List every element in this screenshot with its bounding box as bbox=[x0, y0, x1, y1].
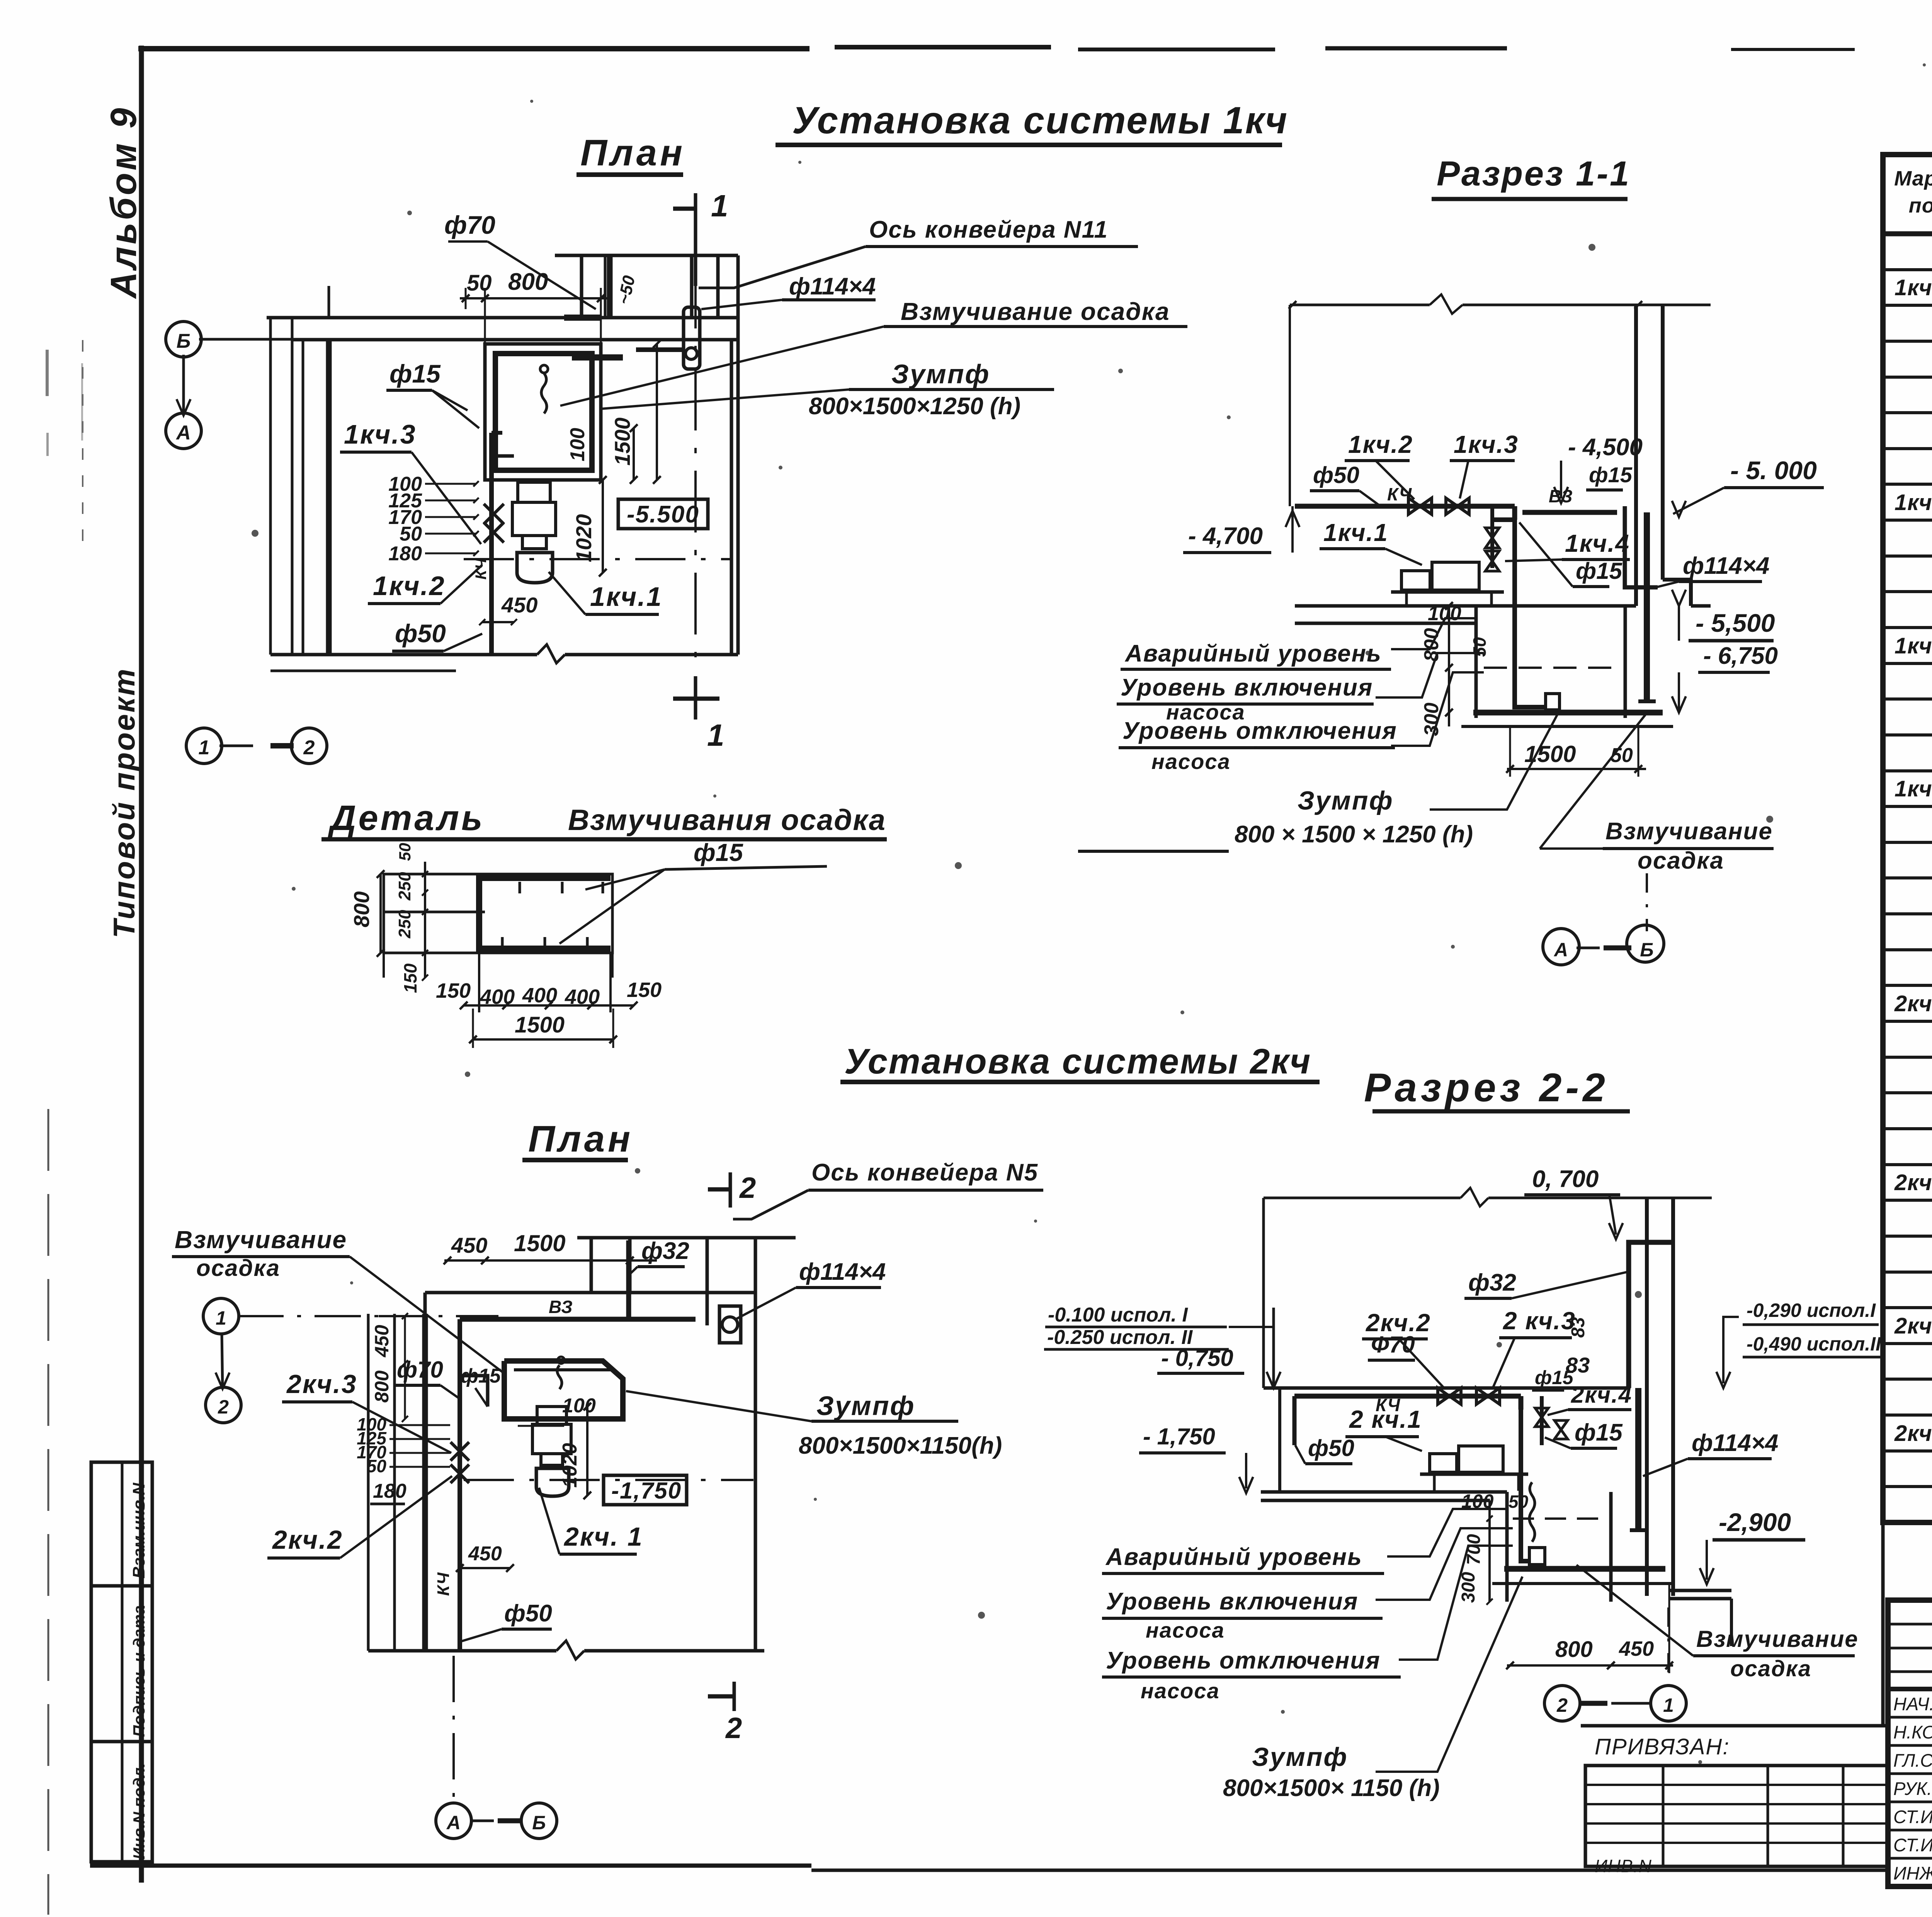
razrez2 right lower wall slab bbox=[1668, 1589, 1731, 1592]
plan2 axis circle 1 bbox=[203, 1298, 239, 1334]
svg-text:400: 400 bbox=[565, 985, 600, 1009]
plan2 pump 2KCh.1 unit bbox=[537, 1407, 566, 1424]
razrez1 axis circles A B bbox=[1543, 929, 1579, 965]
svg-text:ф70: ф70 bbox=[397, 1357, 443, 1383]
plan2 pipe elbow f15 into sump bbox=[460, 1376, 488, 1407]
detail dim line 1500 bbox=[473, 1038, 613, 1041]
razrez1 riser pipe down to sump bbox=[1512, 506, 1517, 520]
razrez2 pipe left elbow down bbox=[1293, 1396, 1297, 1445]
svg-text:Альбом 9: Альбом 9 bbox=[103, 106, 144, 299]
scan page left edge artifact bbox=[48, 1109, 49, 1915]
left stamp column table bbox=[91, 1462, 152, 1862]
detail bottom extension rect bbox=[383, 953, 385, 978]
plan2 section mark 2 top bbox=[729, 1172, 732, 1208]
svg-text:ГЛ.СПЕЦ.: ГЛ.СПЕЦ. bbox=[1893, 1750, 1932, 1771]
svg-text:Взмучивание: Взмучивание bbox=[1605, 818, 1773, 845]
svg-text:осадка: осадка bbox=[196, 1255, 280, 1281]
svg-text:1500: 1500 bbox=[610, 417, 634, 466]
plan1 valve 1KCh.2 cross symbols bbox=[484, 504, 504, 524]
svg-text:-5.500: -5.500 bbox=[627, 501, 699, 528]
svg-text:ф15: ф15 bbox=[1535, 1367, 1574, 1388]
svg-text:Б: Б bbox=[1640, 939, 1653, 961]
svg-text:ф114×4: ф114×4 bbox=[789, 273, 876, 300]
razrez1 floor slab double line bbox=[1295, 604, 1636, 608]
plan2 level box -1,750 bbox=[604, 1475, 687, 1505]
svg-text:800: 800 bbox=[1420, 628, 1443, 662]
plan1 pump 1KCh.1 unit bbox=[518, 482, 550, 502]
svg-text:- 0,750: - 0,750 bbox=[1161, 1345, 1233, 1371]
razrez1 f15 riser with valves bbox=[1490, 506, 1494, 568]
plan1 section line 1 bottom mark bbox=[694, 676, 697, 720]
svg-text:2кч.3: 2кч.3 bbox=[286, 1369, 357, 1399]
razrez2 dim 700 300 rotated bbox=[1488, 1500, 1491, 1602]
svg-text:Взмучивание: Взмучивание bbox=[175, 1226, 347, 1254]
svg-text:ПРИВЯЗАН:: ПРИВЯЗАН: bbox=[1595, 1734, 1730, 1759]
svg-text:800: 800 bbox=[508, 269, 548, 295]
svg-text:800: 800 bbox=[349, 891, 374, 927]
svg-text:ф32: ф32 bbox=[1468, 1269, 1516, 1296]
plan2 pipe VZ horizontal bbox=[460, 1317, 696, 1322]
svg-text:800×1500×1150(h): 800×1500×1150(h) bbox=[799, 1432, 1002, 1459]
svg-text:2: 2 bbox=[1556, 1694, 1568, 1716]
razrez1 level leader lines bbox=[1391, 618, 1476, 649]
detail dim line segments 150 400 400 400 150 bbox=[464, 1004, 634, 1007]
svg-text:1кч.2: 1кч.2 bbox=[1348, 430, 1413, 458]
svg-text:ВЗ: ВЗ bbox=[549, 1297, 573, 1317]
razrez2 sump walls bbox=[1505, 1492, 1509, 1602]
svg-text:ф32: ф32 bbox=[641, 1238, 689, 1264]
plan1 pump axis dash-dot line bbox=[464, 558, 730, 560]
spec table header row line bbox=[1883, 231, 1932, 236]
plan2 pump axis dash-dot line bbox=[464, 1479, 753, 1481]
svg-text:450: 450 bbox=[501, 593, 537, 617]
svg-text:насоса: насоса bbox=[1141, 1679, 1220, 1703]
sheet frame bottom border bbox=[90, 1864, 811, 1868]
svg-text:180: 180 bbox=[373, 1480, 406, 1502]
svg-text:ф114×4: ф114×4 bbox=[799, 1259, 886, 1285]
svg-text:- 6,750: - 6,750 bbox=[1703, 643, 1778, 669]
svg-text:100: 100 bbox=[566, 428, 589, 461]
razrez2 top line with break bbox=[1264, 1197, 1461, 1199]
svg-text:РУК.ГР.: РУК.ГР. bbox=[1893, 1778, 1932, 1799]
svg-text:2кч. 4: 2кч. 4 bbox=[1894, 1421, 1932, 1446]
razrez1 top dimension line with break bbox=[1290, 304, 1430, 306]
svg-text:ф50: ф50 bbox=[395, 619, 446, 648]
plan1 section axis dash-dot through room bbox=[694, 267, 697, 674]
svg-text:50: 50 bbox=[1469, 637, 1490, 657]
scan noise specks bbox=[530, 100, 533, 103]
plan1 axis A-B connector bbox=[182, 355, 185, 415]
svg-text:250: 250 bbox=[395, 872, 414, 901]
svg-text:-0.100 испол. I: -0.100 испол. I bbox=[1048, 1304, 1188, 1326]
svg-text:Аварийный уровень: Аварийный уровень bbox=[1105, 1544, 1362, 1570]
razrez2 axis circles 2 1 bbox=[1544, 1686, 1580, 1721]
svg-text:Инв.N подл.: Инв.N подл. bbox=[130, 1763, 148, 1859]
razrez1 valve 1KCh.2 bbox=[1408, 498, 1432, 514]
svg-text:- 5,500: - 5,500 bbox=[1696, 609, 1775, 637]
detail mid divider line bbox=[384, 911, 485, 913]
svg-text:- 1,750: - 1,750 bbox=[1143, 1424, 1215, 1449]
svg-text:400: 400 bbox=[480, 985, 515, 1009]
svg-text:ф70: ф70 bbox=[444, 211, 495, 239]
svg-text:А: А bbox=[175, 422, 191, 444]
razrez2 pump 2KCh.1 bbox=[1430, 1454, 1457, 1472]
plan1 suction pipe vertical bbox=[489, 433, 494, 656]
svg-text:250: 250 bbox=[395, 910, 414, 939]
razrez2 strainer bbox=[1529, 1548, 1545, 1565]
svg-text:ф15: ф15 bbox=[694, 839, 743, 866]
razrez2 upper floor line bbox=[1264, 1386, 1629, 1390]
svg-text:400: 400 bbox=[522, 984, 557, 1007]
plan1 left wall double line bbox=[269, 318, 272, 655]
svg-text:1кч.2: 1кч.2 bbox=[373, 571, 446, 601]
title block signature rows bbox=[1888, 1716, 1932, 1719]
svg-text:2: 2 bbox=[303, 737, 315, 759]
svg-text:насоса: насоса bbox=[1146, 1618, 1225, 1642]
svg-text:Установка системы 2кч: Установка системы 2кч bbox=[844, 1042, 1311, 1081]
svg-text:150: 150 bbox=[436, 979, 471, 1002]
razrez1 strainer at pipe end bbox=[1546, 694, 1560, 710]
svg-text:Ось конвейера N11: Ось конвейера N11 bbox=[869, 216, 1108, 243]
svg-text:1500: 1500 bbox=[514, 1230, 565, 1256]
detail channel thick walls bbox=[479, 878, 611, 953]
svg-text:Взмучивание осадка: Взмучивание осадка bbox=[901, 298, 1170, 325]
svg-text:-0,290 испол.I: -0,290 испол.I bbox=[1747, 1300, 1876, 1321]
plan2 conveyor walls top bbox=[577, 1236, 796, 1240]
svg-text:Разрез 1-1: Разрез 1-1 bbox=[1437, 155, 1631, 193]
svg-text:1020: 1020 bbox=[571, 514, 596, 562]
svg-text:50: 50 bbox=[400, 523, 422, 545]
plan2 dim 450 bottom bbox=[460, 1567, 510, 1569]
razrez2 level leaders left bbox=[1387, 1509, 1507, 1556]
svg-text:Зумпф: Зумпф bbox=[891, 359, 990, 389]
svg-text:ИНЖ.: ИНЖ. bbox=[1893, 1863, 1932, 1883]
razrez1 sump water level dash bbox=[1484, 667, 1619, 669]
svg-text:1кч.3: 1кч.3 bbox=[1895, 633, 1932, 658]
svg-text:450: 450 bbox=[1619, 1637, 1654, 1660]
svg-text:План: План bbox=[580, 132, 685, 173]
razrez2 sump bottom slab bbox=[1504, 1566, 1665, 1572]
plan2 horizontal centerline dash-dot bbox=[237, 1315, 379, 1317]
plan1 pipe elbow into sump bbox=[492, 431, 502, 435]
svg-text:План: План bbox=[528, 1118, 633, 1160]
plan1 dim line 50 800 top bbox=[460, 297, 609, 299]
svg-text:2: 2 bbox=[218, 1396, 229, 1418]
svg-text:300: 300 bbox=[1458, 1572, 1479, 1603]
svg-text:800: 800 bbox=[371, 1370, 393, 1403]
svg-text:1: 1 bbox=[216, 1307, 226, 1329]
svg-text:1: 1 bbox=[707, 718, 724, 752]
detail left dim 800 bbox=[379, 874, 382, 953]
svg-text:Н.КОНТР.: Н.КОНТР. bbox=[1893, 1722, 1932, 1742]
svg-text:СТ.ИНЖ.: СТ.ИНЖ. bbox=[1893, 1806, 1932, 1827]
spec table row lines bbox=[1883, 268, 1932, 271]
razrez1 right wall columns bbox=[1634, 305, 1638, 606]
plan2 sump inner top line bbox=[514, 1368, 614, 1371]
plan1 bottom wall with break bbox=[270, 653, 537, 657]
plan2 centerline down to axis circles bbox=[452, 1656, 455, 1801]
svg-text:50: 50 bbox=[467, 270, 492, 296]
svg-text:ф15: ф15 bbox=[1575, 1419, 1623, 1446]
razrez2 f32 pipe vertical thick bbox=[1629, 1242, 1673, 1388]
plan1 pipe to pump horizontal bbox=[492, 454, 514, 458]
svg-text:Б: Б bbox=[177, 330, 191, 352]
plan2 valve crosses on pipe bbox=[451, 1442, 469, 1461]
plan2 axis connector 1-2 bbox=[222, 1332, 223, 1389]
plan2 axis circles A B bottom bbox=[436, 1803, 471, 1839]
plan2 bottom wall with break bbox=[368, 1649, 556, 1653]
svg-text:1: 1 bbox=[1663, 1694, 1674, 1716]
svg-text:2кч.4: 2кч.4 bbox=[1571, 1382, 1632, 1408]
svg-text:насоса: насоса bbox=[1151, 749, 1231, 774]
svg-text:Б: Б bbox=[532, 1812, 546, 1834]
svg-text:2кч. 2: 2кч. 2 bbox=[1894, 1170, 1932, 1195]
svg-text:Зумпф: Зумпф bbox=[816, 1391, 915, 1421]
razrez2 left wall step bbox=[1262, 1198, 1265, 1388]
svg-text:-0,490 испол.II: -0,490 испол.II bbox=[1747, 1333, 1881, 1355]
razrez1 floor slab right part bbox=[1691, 604, 1711, 608]
svg-text:ф15: ф15 bbox=[1576, 558, 1622, 584]
svg-text:поз.: поз. bbox=[1909, 194, 1932, 217]
svg-text:50: 50 bbox=[396, 843, 414, 861]
plan1 f70 pipe drop double line bbox=[604, 257, 607, 318]
svg-text:ф50: ф50 bbox=[504, 1600, 552, 1627]
razrez1 valve 1KCh.3 bbox=[1446, 498, 1469, 514]
svg-text:Взмучивания осадка: Взмучивания осадка bbox=[568, 804, 886, 837]
svg-text:осадка: осадка bbox=[1638, 847, 1724, 874]
svg-text:Зумпф: Зумпф bbox=[1298, 786, 1394, 815]
razrez2 f114x4 pipe vertical bbox=[1635, 1388, 1641, 1530]
razrez1 upper floor small ticks bbox=[1625, 304, 1711, 306]
plan2 section mark 2 bottom bbox=[733, 1682, 736, 1711]
plan2 float in sump bbox=[557, 1365, 562, 1389]
razrez1 pipe VZ horizontal bbox=[1522, 510, 1617, 515]
svg-text:КЧ: КЧ bbox=[473, 558, 490, 580]
svg-text:ф114×4: ф114×4 bbox=[1692, 1430, 1778, 1456]
plan1 sump outlet slot bbox=[572, 354, 623, 361]
razrez2 riser and valves 2KCh.4 bbox=[1519, 1396, 1524, 1410]
razrez2 floor slab double bbox=[1261, 1490, 1507, 1494]
detail outer thin rectangle bbox=[384, 874, 612, 953]
plan1 bottom outer wall line bbox=[270, 670, 456, 672]
svg-text:Деталь: Деталь bbox=[328, 798, 485, 838]
svg-text:50: 50 bbox=[367, 1456, 387, 1476]
svg-text:ф15: ф15 bbox=[1589, 463, 1633, 487]
svg-text:2: 2 bbox=[725, 1712, 742, 1745]
plan2 pipe drop from VZ bbox=[457, 1319, 462, 1376]
razrez2 valve 2KCh.3 bbox=[1476, 1388, 1500, 1404]
plan1 left wall column thick bbox=[326, 340, 332, 655]
detail left dim chain 50 250 250 150 bbox=[424, 862, 426, 978]
title block row line under TP cell bbox=[1888, 1687, 1932, 1691]
svg-text:1кч.3: 1кч.3 bbox=[344, 419, 417, 449]
svg-text:ф15: ф15 bbox=[389, 359, 441, 388]
plan2 dims 450 800 rotated left bbox=[404, 1316, 406, 1363]
plan1 axis circle A bbox=[166, 413, 201, 449]
svg-text:0, 700: 0, 700 bbox=[1532, 1166, 1599, 1192]
sheet frame top border bbox=[138, 46, 810, 51]
plan1 top wall double line bbox=[267, 316, 738, 320]
svg-text:800×1500× 1150 (h): 800×1500× 1150 (h) bbox=[1223, 1775, 1440, 1801]
scan smudge marks left edge bbox=[46, 350, 49, 396]
svg-text:А: А bbox=[1553, 939, 1568, 961]
svg-text:Уровень отключения: Уровень отключения bbox=[1106, 1647, 1381, 1674]
plan1 dim 1020 vertical bbox=[602, 480, 604, 573]
spec table left edge extension to privyazan bbox=[1881, 1522, 1885, 1726]
plan2 f32 pipe vertical bbox=[626, 1240, 631, 1319]
svg-text:НАЧ.ОТД: НАЧ.ОТД bbox=[1893, 1694, 1932, 1714]
plan2 right wall bbox=[754, 1238, 757, 1651]
svg-text:50: 50 bbox=[1509, 1492, 1529, 1512]
svg-text:Разрез 2-2: Разрез 2-2 bbox=[1364, 1065, 1609, 1110]
plan1 axis dash line vertical bbox=[328, 286, 330, 318]
plan2 flanged elbow on wall bbox=[719, 1306, 741, 1343]
svg-text:2: 2 bbox=[739, 1172, 756, 1204]
razrez1 vertical dim chain 800 50 300 bbox=[1448, 606, 1450, 726]
svg-text:1500: 1500 bbox=[515, 1012, 565, 1038]
plan1 right wall bbox=[730, 340, 733, 655]
razrez1 right wall ledge bbox=[1663, 580, 1691, 606]
razrez1 pipe KCh horizontal bbox=[1295, 504, 1515, 509]
plan2 sump quadrilateral bbox=[504, 1361, 623, 1419]
plan2 room top wall bbox=[425, 1291, 755, 1294]
svg-text:1кч.1: 1кч.1 bbox=[1895, 275, 1932, 300]
plan1 f114 standpipe rounded rect with flange circle bbox=[684, 307, 700, 369]
plan1 left wall inner line bbox=[302, 340, 304, 655]
svg-text:2кч.2: 2кч.2 bbox=[272, 1525, 343, 1555]
svg-text:ф50: ф50 bbox=[1308, 1435, 1354, 1461]
svg-text:Установка системы 1кч: Установка системы 1кч bbox=[792, 99, 1288, 141]
svg-text:ф114×4: ф114×4 bbox=[1683, 553, 1769, 579]
sheet frame left border bbox=[139, 46, 144, 1883]
svg-text:2кч. 1: 2кч. 1 bbox=[563, 1522, 643, 1551]
svg-text:300: 300 bbox=[1420, 703, 1443, 736]
razrez2 pipe KCh horizontal bbox=[1294, 1394, 1521, 1399]
svg-text:2 кч.1: 2 кч.1 bbox=[1349, 1405, 1422, 1433]
svg-text:Уровень включения: Уровень включения bbox=[1106, 1588, 1358, 1615]
razrez1 left vertical dim line bbox=[1289, 305, 1291, 506]
plan1 dim 1500 vertical bbox=[656, 344, 658, 480]
detail inner hatch ticks bottom bbox=[501, 937, 504, 949]
svg-text:2кч. 1: 2кч. 1 bbox=[1894, 991, 1932, 1016]
plan1 conveyor support walls top bbox=[555, 254, 738, 257]
svg-text:180: 180 bbox=[388, 543, 422, 565]
razrez2 water level dash bbox=[1513, 1517, 1604, 1520]
svg-text:150: 150 bbox=[627, 978, 662, 1002]
svg-text:700: 700 bbox=[1464, 1534, 1484, 1565]
detail inner hatch ticks top bbox=[519, 882, 521, 893]
plan1 section line 1 top mark bbox=[694, 193, 697, 286]
svg-text:450: 450 bbox=[468, 1543, 502, 1565]
razrez1 dim 1500 bottom bbox=[1507, 768, 1646, 770]
razrez2 axis dash vertical bbox=[1667, 1607, 1670, 1687]
title block outer border bbox=[1888, 1600, 1932, 1886]
plan2 dim 1020 vertical bbox=[586, 1407, 588, 1495]
svg-text:1кч.4: 1кч.4 bbox=[1565, 529, 1630, 557]
svg-text:1кч.2: 1кч.2 bbox=[1895, 490, 1932, 515]
svg-text:Взмучивание: Взмучивание bbox=[1696, 1626, 1859, 1652]
razrez1 pump 1KCh.1 bbox=[1401, 571, 1430, 590]
svg-text:1кч.1: 1кч.1 bbox=[590, 582, 663, 612]
svg-text:ф50: ф50 bbox=[1313, 462, 1359, 488]
plan2 dim 450 1500 top bbox=[444, 1259, 657, 1262]
plan1 conveyor slab right edge bbox=[736, 255, 740, 655]
svg-text:-2,900: -2,900 bbox=[1719, 1508, 1791, 1536]
svg-text:А: А bbox=[446, 1812, 461, 1834]
svg-text:Подпись и дата: Подпись и дата bbox=[130, 1606, 148, 1737]
svg-text:Уровень включения: Уровень включения bbox=[1121, 674, 1373, 701]
svg-text:Типовой проект: Типовой проект bbox=[107, 667, 141, 938]
svg-text:Ф70: Ф70 bbox=[1371, 1332, 1415, 1357]
privyazan area top line bbox=[1581, 1724, 1888, 1728]
svg-text:Марка,: Марка, bbox=[1894, 167, 1932, 190]
svg-text:ИНВ.N: ИНВ.N bbox=[1595, 1856, 1652, 1876]
svg-text:800: 800 bbox=[1555, 1637, 1593, 1662]
svg-text:СТ.ИНЖ.: СТ.ИНЖ. bbox=[1893, 1835, 1932, 1855]
svg-text:-1,750: -1,750 bbox=[611, 1478, 682, 1504]
plan1 sump (zumpf) rectangle bbox=[485, 344, 601, 480]
plan1 float switch in sump bbox=[541, 373, 547, 413]
svg-text:- 4,700: - 4,700 bbox=[1188, 523, 1263, 549]
plan1 axis circles 1 and 2 bottom bbox=[186, 728, 222, 764]
plan2 suction pipe KCh vertical bbox=[457, 1376, 462, 1651]
svg-text:1020: 1020 bbox=[559, 1443, 581, 1488]
privyazan table bbox=[1585, 1766, 1888, 1866]
razrez2 float cable wavy bbox=[1529, 1482, 1535, 1542]
svg-text:Ось конвейера N5: Ось конвейера N5 bbox=[811, 1159, 1038, 1186]
plan1 level mark -5.500 box bbox=[618, 499, 708, 529]
razrez1 sump bottom slab bbox=[1473, 710, 1663, 716]
svg-text:2 кч.3: 2 кч.3 bbox=[1503, 1307, 1576, 1335]
svg-text:800×1500×1250 (h): 800×1500×1250 (h) bbox=[809, 393, 1020, 420]
svg-text:осадка: осадка bbox=[1730, 1656, 1811, 1681]
svg-text:КЧ: КЧ bbox=[434, 1572, 453, 1596]
svg-text:1кч.1: 1кч.1 bbox=[1323, 519, 1388, 546]
razrez2 right wall verticals bbox=[1645, 1198, 1649, 1596]
svg-text:450: 450 bbox=[371, 1325, 393, 1357]
svg-text:450: 450 bbox=[451, 1233, 487, 1257]
svg-text:- 5. 000: - 5. 000 bbox=[1730, 456, 1817, 485]
svg-text:Аварийный уровень: Аварийный уровень bbox=[1124, 640, 1382, 667]
svg-text:150: 150 bbox=[400, 963, 420, 993]
razrez2 riser pipe into sump bbox=[1521, 1410, 1530, 1561]
razrez2 dim 800 450 bottom bbox=[1507, 1664, 1673, 1667]
plan1 VZ pipe into standpipe bbox=[636, 347, 684, 352]
razrez1 vzmuchivanie pipe elbow bbox=[1625, 506, 1658, 587]
svg-text:800 × 1500 × 1250 (h): 800 × 1500 × 1250 (h) bbox=[1235, 821, 1473, 848]
title block upper small rows bbox=[1888, 1623, 1932, 1626]
razrez1 axis dash line to circles bbox=[1646, 873, 1648, 931]
plan2 left wall double lines bbox=[367, 1314, 370, 1651]
svg-text:100: 100 bbox=[562, 1395, 596, 1417]
svg-text:Зумпф: Зумпф bbox=[1252, 1742, 1348, 1772]
plan1 dim 100 vertical bbox=[633, 428, 635, 480]
svg-text:Взам.инв.N: Взам.инв.N bbox=[129, 1482, 148, 1579]
plan1 sump opening to conveyor bbox=[564, 315, 601, 321]
razrez1 f114x4 big pipe bbox=[1644, 512, 1650, 701]
razrez2 valve 2KCh.2 bbox=[1438, 1388, 1461, 1404]
razrez1 sump walls bbox=[1475, 606, 1478, 718]
svg-text:- 4,500: - 4,500 bbox=[1568, 434, 1643, 461]
svg-text:1кч.3: 1кч.3 bbox=[1454, 430, 1519, 458]
svg-text:Уровень отключения: Уровень отключения bbox=[1122, 718, 1397, 744]
svg-text:100: 100 bbox=[1428, 602, 1461, 625]
spec table outer border bbox=[1883, 155, 1932, 1522]
svg-text:1кч. 4: 1кч. 4 bbox=[1895, 776, 1932, 801]
svg-text:1: 1 bbox=[199, 737, 210, 759]
svg-text:2кч.3: 2кч.3 bbox=[1894, 1313, 1932, 1339]
plan2 axis circle 2 bbox=[206, 1387, 241, 1423]
